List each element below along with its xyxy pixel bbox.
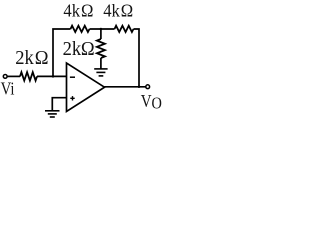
svg-text:V: V [141, 91, 152, 112]
svg-text:2kΩ: 2kΩ [63, 39, 95, 61]
svg-text:4kΩ: 4kΩ [103, 1, 133, 20]
svg-text:2kΩ: 2kΩ [15, 48, 48, 70]
svg-text:Vi: Vi [1, 78, 15, 99]
svg-text:4kΩ: 4kΩ [63, 1, 93, 20]
svg-text:O: O [152, 94, 162, 112]
